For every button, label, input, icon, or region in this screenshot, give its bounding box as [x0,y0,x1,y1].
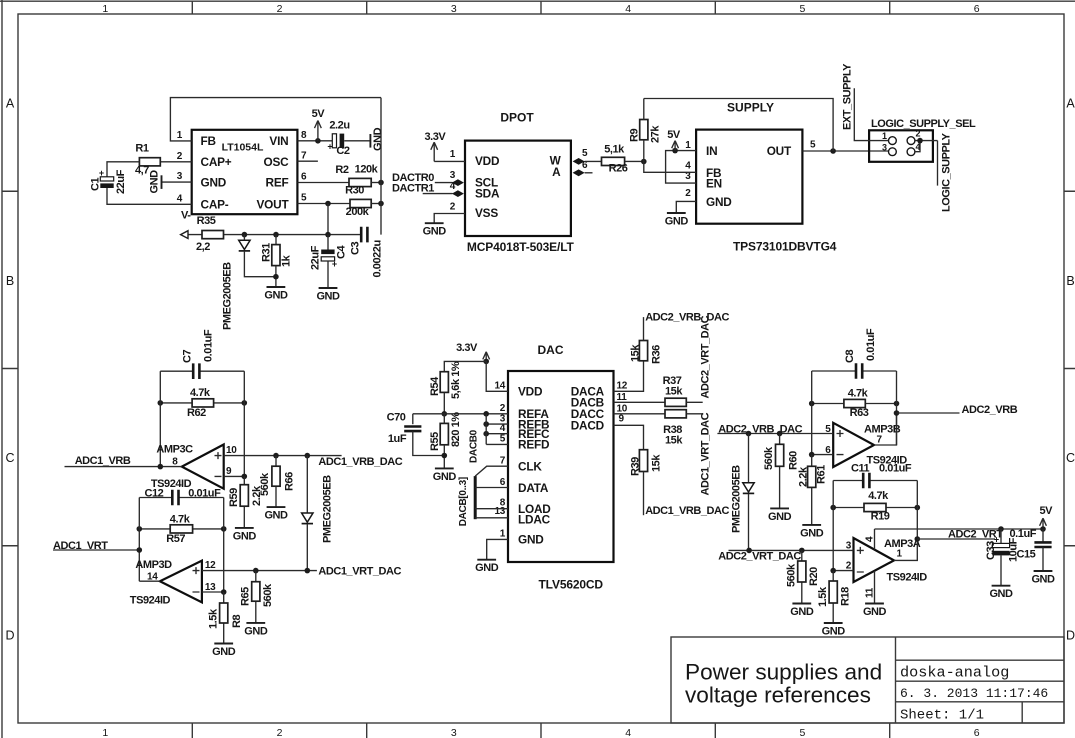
node REFC junction [483,431,489,437]
resistor R26 5,1k [602,144,628,175]
capacitor C33 10uF [985,529,1020,562]
wire VSS pin2 [434,214,465,224]
svg-text:LDAC: LDAC [518,512,551,526]
svg-text:R1: R1 [135,143,148,155]
svg-text:FB: FB [201,134,216,148]
svg-text:C2: C2 [336,145,349,157]
svg-text:DACB0: DACB0 [469,429,480,463]
net ADC2_VRT_DAC label (amp) [718,551,801,563]
node R62 left junction [158,400,164,406]
svg-text:D: D [5,628,14,642]
svg-text:1: 1 [897,548,903,559]
svg-text:+: + [327,142,332,152]
net LOGIC_SUPPLY wire [937,141,939,186]
wire C70 bottom [413,431,445,455]
bus DACB[0..3] [474,476,477,519]
node R62 right junction [242,400,248,406]
svg-text:C1: C1 [90,178,102,191]
power 3.3V at DPOT VDD [424,131,446,162]
capacitor C4 22uF [310,245,348,270]
svg-text:R39: R39 [630,457,642,476]
svg-text:4.7k: 4.7k [170,514,191,526]
svg-text:+: + [99,168,104,178]
svg-text:2: 2 [685,188,691,199]
svg-text:GND: GND [316,291,340,303]
svg-text:ADC2_VRB: ADC2_VRB [962,404,1018,416]
wire VIN pin8 [297,140,332,142]
wire CLK pin7 bus entry [475,466,508,476]
svg-text:1: 1 [450,149,456,160]
net DACB0 label [469,429,480,463]
wire AMP3A output [894,539,917,560]
svg-text:GND: GND [264,510,288,522]
svg-text:1: 1 [500,529,506,540]
svg-text:3: 3 [451,3,457,15]
resistor R38 15k [663,410,686,447]
diode PMEG2005EB (left) label [222,262,234,330]
svg-text:7: 7 [301,151,307,162]
svg-text:GND: GND [665,216,689,228]
svg-text:GND: GND [706,195,732,209]
svg-text:6: 6 [500,477,506,488]
svg-text:GND: GND [822,626,846,638]
wire DACC pin10 [614,413,666,415]
svg-text:GND: GND [800,527,824,539]
svg-text:15k: 15k [651,454,663,472]
svg-text:5V: 5V [312,108,326,120]
svg-text:R18: R18 [840,587,852,606]
op-amp AMP3C triangle [182,445,224,489]
svg-text:EXT_SUPPLY: EXT_SUPPLY [842,63,854,130]
resistor R39 15k [630,450,663,476]
svg-text:R26: R26 [609,162,628,174]
svg-text:27k: 27k [650,125,662,143]
ground under R65 [244,623,268,638]
svg-text:OUT: OUT [767,144,792,158]
wire C4 top [327,235,329,250]
node diode right top junction [746,431,752,437]
svg-text:5V: 5V [1040,505,1054,517]
wire DATA pin6 [475,487,508,489]
node ADC1_VRT junction [137,547,143,553]
svg-text:R60: R60 [788,451,800,470]
resistor R35 2,2 [196,215,223,253]
resistor R57 4.7k [139,514,223,546]
title block box [671,637,1064,723]
wire AMP3B feedback left [811,371,813,455]
wire ADC2_VRT [917,538,995,540]
svg-text:R57: R57 [166,533,185,545]
resistor R63 4.7k [812,388,897,420]
net LOGIC_SUPPLY label [941,132,953,212]
svg-text:3: 3 [177,171,183,182]
AMP3B labels [825,424,907,467]
svg-text:R9: R9 [629,129,641,142]
svg-text:12: 12 [205,560,216,571]
wire R39 bottom [643,472,645,516]
svg-text:R8: R8 [231,615,243,628]
ground under R55 [433,468,457,483]
wire R26 to node [625,160,644,162]
svg-text:ADC2_VRB_DAC: ADC2_VRB_DAC [645,312,729,324]
ground at C2 [370,127,384,151]
svg-text:doska-analog: doska-analog [900,664,1009,682]
svg-text:IN: IN [706,144,717,158]
svg-text:5: 5 [582,148,588,159]
MCP4018 pin numbers [450,148,588,212]
svg-text:4.7k: 4.7k [190,387,211,399]
wire C1 to CAP- pin4 [107,188,192,204]
svg-text:2: 2 [277,3,283,15]
wire 5V rail to pin4 [875,528,1044,530]
node AMP3D - junction [221,589,227,595]
svg-text:560k: 560k [259,472,271,496]
svg-text:DACTR1: DACTR1 [392,183,434,195]
resistor R59 2.2k [228,476,263,528]
wire AMP3A feedback left [832,481,834,571]
svg-text:R62: R62 [187,407,206,419]
svg-text:GND: GND [518,533,544,547]
svg-text:VDD: VDD [475,154,500,168]
wire R1 to C1 [107,162,139,177]
svg-text:7: 7 [500,455,506,466]
wire A pin6 stub [573,169,593,176]
wire VOUT to V- node [327,204,329,235]
wire W pin5 [573,158,602,165]
wire AMP3A GND pin11 [874,571,876,604]
svg-text:1.5k: 1.5k [817,586,829,607]
node AMP3D diode junction [305,568,311,574]
title block date [900,686,1048,701]
node R57 right junction [221,526,227,532]
svg-text:LT1054L: LT1054L [222,142,264,154]
node AMP3C - junction [242,474,248,480]
svg-text:EN: EN [706,176,722,190]
resistor R66 560k [259,456,296,508]
svg-text:TPS73101DBVTG4: TPS73101DBVTG4 [733,240,837,254]
capacitor C7 0.01uF [160,329,244,379]
node R9 bottom junction [641,159,647,165]
svg-text:5,6k 1%: 5,6k 1% [450,361,462,399]
svg-text:3.3V: 3.3V [456,342,478,354]
svg-text:1: 1 [177,130,183,141]
svg-text:2.2u: 2.2u [329,119,349,131]
wire AMP3A - input [833,570,853,572]
net ADC1_VRB_DAC label (amp) [318,456,402,468]
svg-text:2.2k: 2.2k [798,466,810,487]
svg-text:+: + [332,259,337,269]
svg-text:ADC1_VRB_DAC: ADC1_VRB_DAC [318,456,402,468]
wire LOAD pin8 [475,508,508,510]
node AMP3A diode junction [746,548,752,554]
svg-text:voltage references: voltage references [685,683,871,708]
connector pins [882,129,921,156]
MCP4018 pin names [475,154,562,221]
net DACTR0 label [392,172,434,184]
svg-text:R63: R63 [850,407,869,419]
node AMP3B - junction [809,452,815,458]
svg-text:GND: GND [212,646,236,658]
node AMP3B output junction [894,410,900,416]
svg-text:5: 5 [500,434,506,445]
svg-text:PMEG2005EB: PMEG2005EB [731,465,743,533]
resistor R18 1.5k [817,571,852,623]
svg-text:Sheet: 1/1: Sheet: 1/1 [900,708,984,724]
wire OUT rail to R9 [644,99,833,152]
diode PMEG2005EB (left) [239,235,276,277]
svg-text:560k: 560k [763,446,775,470]
ground at LT1054 pin3 [149,170,162,194]
wire DACB pin11 [614,401,666,403]
svg-text:4.7k: 4.7k [848,388,869,400]
SUPPLY title [727,100,774,114]
svg-text:ADC2_VRT_DAC: ADC2_VRT_DAC [700,315,712,398]
capacitor C1 22uF [90,168,128,194]
resistor R62 4.7k [160,387,244,419]
wire AMP3D - input [202,591,224,593]
ground at DPOT VSS [423,223,447,238]
svg-text:DACD: DACD [571,418,605,432]
svg-text:GND: GND [1031,574,1055,586]
node R20 top junction [799,548,805,554]
wire AMP3B - input [812,454,834,456]
wire C33 bottom [1000,555,1002,585]
net V- label [181,210,191,222]
svg-text:ADC1_VRB: ADC1_VRB [75,455,131,467]
node R31 bottom junction [273,274,279,280]
power 5V at VIN [312,108,326,141]
svg-text:2,2: 2,2 [196,241,210,253]
DAC TLV5620 box [508,371,614,562]
svg-text:GND: GND [244,625,268,637]
svg-text:CLK: CLK [518,460,542,474]
ground under R60 [768,508,792,523]
wire R31 top [275,235,277,245]
MCP4018 part number [467,240,575,254]
svg-text:DAC: DAC [538,343,564,357]
wire DPOT VDD pin1 [434,160,465,162]
resistor R19 4.7k [833,490,917,523]
wire C2 to GND [344,140,370,142]
svg-text:VSS: VSS [475,206,498,220]
wire AMP3D + input [202,570,317,572]
svg-text:R31: R31 [261,243,273,262]
svg-text:2: 2 [450,201,456,212]
svg-text:ADC1_VRB_DAC: ADC1_VRB_DAC [645,505,729,517]
op-amp U? LT1054 box [192,130,298,214]
wire R30 to rail [371,203,381,205]
ground under R66 [264,507,288,521]
capacitor C15 0.1uF [1010,528,1052,561]
wire AMP3A + input [729,549,854,551]
wire DAC GND pin1 [487,539,508,559]
svg-text:6: 6 [974,3,980,15]
node R63 left junction [809,401,815,407]
wire AMP3B output [874,413,897,445]
svg-text:GND: GND [768,511,792,523]
svg-text:4: 4 [625,3,631,15]
svg-text:0.01uF: 0.01uF [865,328,877,361]
LT1054 pin numbers [177,130,307,205]
svg-text:ADC1_VRT_DAC: ADC1_VRT_DAC [318,565,401,577]
wire AMP3C output [65,466,182,468]
resistor R61 2.2k [798,455,828,525]
node R2 rail junction [378,180,384,186]
resistor R8 1.5k [208,592,244,644]
svg-text:TLV5620CD: TLV5620CD [539,578,604,592]
svg-text:R55: R55 [429,432,441,451]
ground at C4 [316,288,340,303]
node REFB junction [483,421,489,427]
svg-text:V-: V- [181,210,191,222]
title block project name [900,664,1009,682]
wire R37 to label [686,401,702,403]
wire VOUT pin5 [297,203,350,205]
node IN 5V junction [672,148,678,154]
svg-text:C11: C11 [851,463,870,475]
svg-text:GND: GND [372,127,384,151]
diode PMEG2005EB (mid-left) [302,456,313,571]
diode PMEG2005EB (right) [743,434,754,551]
op-amp AMP3D triangle [160,561,202,603]
svg-text:R20: R20 [808,567,820,586]
wire REFB pin3 [486,423,508,425]
svg-text:C: C [1066,451,1075,465]
DAC title [538,343,564,357]
capacitor C70 1uF [387,411,422,445]
AMP3C labels [151,443,237,490]
wire AMP3B feedback right [896,371,898,445]
capacitor C3 0.0022u [350,227,384,278]
svg-text:560k: 560k [786,563,798,587]
svg-text:GND: GND [264,290,288,302]
svg-text:REFD: REFD [518,438,550,452]
svg-text:DATA: DATA [518,481,549,495]
TPS73101 pin names [706,144,792,209]
wire R38 to label [686,413,702,415]
wire VDD pin14 [444,361,508,391]
ground under C15 [1031,571,1055,586]
bus label DACB[0..3] [458,477,469,526]
svg-text:1k: 1k [281,254,293,267]
diode PMEG2005EB (right) label [731,465,743,533]
TLV5620 part number [539,578,604,592]
wire AMP3C feedback left [159,371,161,466]
svg-text:GND: GND [790,606,814,618]
svg-text:GND: GND [201,176,227,190]
svg-text:R66: R66 [284,472,296,491]
svg-text:0.01uF: 0.01uF [879,463,912,475]
svg-text:11: 11 [617,392,628,403]
resistor R20 560k [786,550,821,603]
diode PMEG2005EB (mid-left) label [322,475,334,543]
LT1054 pin name labels [201,134,290,212]
svg-text:PMEG2005EB: PMEG2005EB [222,262,234,330]
net ADC1_VRB_DAC label (bottom) [645,505,729,517]
svg-text:5: 5 [799,3,805,15]
svg-text:1: 1 [102,727,108,738]
svg-text:VIN: VIN [269,134,288,148]
ground under R59 [233,528,257,543]
wire AMP3C feedback right [243,371,245,476]
svg-text:0.0022u: 0.0022u [372,240,384,277]
svg-text:1.5k: 1.5k [208,608,220,629]
node OUT junction [830,148,836,154]
wire CAP+ pin2 [160,161,191,163]
svg-text:C4: C4 [336,245,348,259]
net ADC1_VRB label [75,455,131,467]
wire R9 top to supply rail [643,99,645,120]
AMP3D labels [130,559,216,607]
svg-text:A: A [1066,97,1075,111]
wire AMP3D feedback right [223,498,225,593]
svg-text:0.1uF: 0.1uF [1010,528,1037,540]
node pin2/4 junction [917,138,923,144]
svg-text:0.01uF: 0.01uF [188,488,221,500]
svg-text:9: 9 [226,466,232,477]
svg-text:13: 13 [205,582,216,593]
svg-text:CAP-: CAP- [201,198,229,212]
wire AMP3A V+ pin4 [874,529,876,550]
svg-text:A: A [552,165,561,179]
power 5V at TPS IN [667,129,681,150]
svg-text:1: 1 [685,140,691,151]
svg-text:AMP3C: AMP3C [156,443,193,455]
svg-text:1: 1 [102,3,108,15]
TLV5620 pin names [518,385,605,547]
svg-text:GND: GND [233,530,257,542]
wire REFC pin4 [486,433,508,435]
svg-text:4: 4 [685,161,691,172]
svg-text:13: 13 [494,506,505,517]
svg-text:TS924ID: TS924ID [887,571,928,583]
svg-text:2: 2 [177,151,183,162]
ground at AMP3A pin11 [863,604,887,619]
wire LDAC pin13 [475,517,508,519]
node VOUT junction [325,201,331,207]
svg-text:B: B [6,274,14,288]
node 3.3V junction [483,359,489,365]
ground at DAC [475,560,499,575]
svg-text:560k: 560k [262,583,274,607]
ground under R61 [800,525,824,540]
regulator U? TPS73101 box [696,130,802,224]
svg-text:3: 3 [451,727,457,738]
net EXT_SUPPLY wire [854,88,888,140]
svg-text:VOUT: VOUT [257,198,290,212]
svg-text:CAP+: CAP+ [201,155,232,169]
svg-text:120k: 120k [355,164,379,176]
net EXT_SUPPLY label [842,63,854,130]
node R57 left junction [137,526,143,532]
resistor R65 560k [240,571,275,623]
node diode left top junction [305,453,311,459]
wire R54 bottom [443,392,445,413]
svg-text:2: 2 [277,727,283,738]
svg-text:GND: GND [433,471,457,483]
frame row letters [5,97,1075,643]
svg-text:R36: R36 [651,345,663,364]
svg-text:22uF: 22uF [115,169,127,194]
svg-text:C8: C8 [844,350,856,363]
svg-text:C33: C33 [985,541,997,560]
node 5V/C15 junction [1040,526,1046,532]
net ADC2_VRT label [948,529,1003,541]
node R60 top junction [777,431,783,437]
ground at TPS [665,213,689,228]
svg-text:4: 4 [625,727,631,738]
svg-text:D: D [1066,628,1075,642]
